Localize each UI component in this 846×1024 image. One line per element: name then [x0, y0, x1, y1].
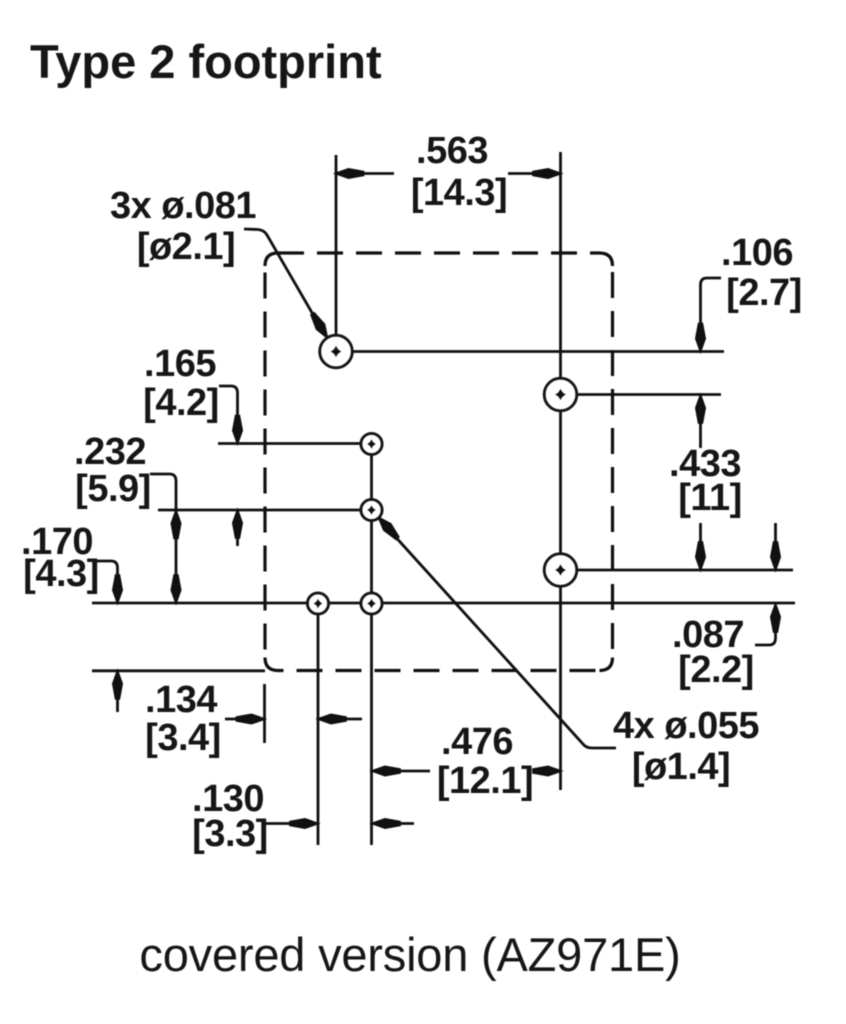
svg-text:.476: .476 — [441, 721, 513, 763]
svg-text:.165: .165 — [144, 343, 216, 385]
svg-text:[ø1.4]: [ø1.4] — [632, 746, 730, 788]
centre mark hole H1 — [331, 346, 342, 358]
wire vertical extension x=336 top — [335, 155, 338, 351]
relay body dashed outline — [265, 253, 613, 671]
svg-text:[3.3]: [3.3] — [192, 813, 268, 855]
wire row line y=443.5 — [218, 442, 372, 445]
dimension .170 [4.3] — [97, 561, 118, 600]
centre mark hole H2 — [555, 389, 566, 401]
dimension .232 [5.9] — [150, 474, 176, 600]
wire row line through hole 1 — [336, 350, 724, 353]
leader 4x ø.055 [ø1.4] — [382, 522, 616, 748]
svg-text:[2.7]: [2.7] — [726, 272, 802, 314]
hole H2 (3x ø.081 / NO contact pin) — [544, 378, 577, 411]
hole S1 (4x ø.055) — [361, 433, 382, 454]
centre mark hole S2 — [367, 505, 376, 515]
wire row line y=510 — [158, 509, 372, 512]
wire small-hole column x=371.5 — [370, 444, 373, 845]
wire bottom main row line — [92, 602, 795, 605]
svg-text:.106: .106 — [721, 232, 793, 274]
centre mark hole S1 — [367, 439, 376, 449]
svg-text:[4.2]: [4.2] — [143, 382, 219, 424]
hole S4 (4x ø.055) — [361, 593, 382, 614]
svg-text:[5.9]: [5.9] — [75, 468, 151, 510]
hole S3 (4x ø.055) — [307, 593, 328, 614]
svg-text:[14.3]: [14.3] — [411, 172, 507, 214]
wire extension line left of bottom edge — [92, 669, 265, 672]
dimension .563 [14.3] — [336, 172, 394, 175]
svg-text:[ø2.1]: [ø2.1] — [137, 226, 235, 268]
hole S2 (4x ø.055) — [361, 499, 382, 520]
wire row line through right hole R2 — [561, 569, 794, 572]
svg-text:[3.4]: [3.4] — [145, 717, 221, 759]
svg-text:covered version (AZ971E): covered version (AZ971E) — [139, 928, 680, 981]
wire row line through right hole R1 — [561, 393, 722, 396]
dimension .130 [3.3] — [264, 822, 316, 825]
wire extension below left corner — [263, 684, 266, 743]
wire column below hole S3 — [317, 604, 320, 846]
dimension .433 [11] — [699, 397, 702, 449]
svg-text:.134: .134 — [145, 679, 217, 721]
svg-text:[4.3]: [4.3] — [23, 553, 99, 595]
dimension .165 [4.2] — [219, 386, 238, 441]
dimension .134 [3.4] — [225, 718, 262, 721]
svg-text:[2.2]: [2.2] — [678, 649, 754, 691]
wire vertical extension x=560.5 — [559, 152, 562, 790]
dimension .476 [12.1] — [374, 770, 431, 773]
dimension .087 [2.2] — [774, 523, 777, 568]
hole H3 (3x ø.081 / NC contact pin) — [544, 554, 577, 587]
hole H1 (3x ø.081 / coil pin) — [320, 335, 353, 368]
dimension .106 [2.7] — [701, 278, 722, 348]
svg-text:.563: .563 — [416, 130, 488, 172]
centre mark hole S4 — [367, 599, 376, 609]
svg-text:3x ø.081: 3x ø.081 — [110, 185, 256, 227]
centre mark hole H3 — [555, 564, 566, 576]
svg-text:[11]: [11] — [678, 477, 741, 519]
svg-text:Type 2 footprint: Type 2 footprint — [30, 35, 382, 88]
svg-text:4x ø.055: 4x ø.055 — [613, 705, 759, 747]
centre mark hole S3 — [314, 599, 323, 609]
svg-text:[12.1]: [12.1] — [437, 760, 533, 802]
svg-text:.232: .232 — [74, 431, 146, 473]
leader 3x ø.081 [ø2.1] — [244, 229, 322, 330]
